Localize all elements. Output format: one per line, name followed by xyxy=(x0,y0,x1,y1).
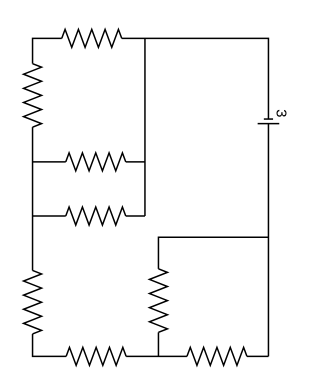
resistor R5 xyxy=(24,270,42,334)
wire left middle segment xyxy=(32,127,34,270)
wire top-left lead xyxy=(33,38,62,63)
resistor R6 xyxy=(149,269,167,333)
battery V1 short plate xyxy=(264,118,273,120)
wire top-right segment xyxy=(122,38,269,119)
wire middle vertical xyxy=(144,38,146,216)
wire lead R3 right xyxy=(126,161,145,163)
resistor R3 xyxy=(66,153,126,171)
svg-text:3: 3 xyxy=(272,109,289,117)
wire bottom-right lead xyxy=(247,355,269,357)
wire lead R4 left xyxy=(33,215,66,217)
wire lead R4 right xyxy=(126,215,145,217)
wire left bottom lead xyxy=(33,334,67,356)
battery V1 long plate xyxy=(258,123,280,125)
wire bottom middle segment xyxy=(126,355,187,357)
wire right lower segment xyxy=(267,124,269,357)
resistor R4 xyxy=(66,207,126,225)
resistor R1 xyxy=(62,29,122,47)
wire lead R3 left xyxy=(33,161,66,163)
wire branch horizontal xyxy=(158,237,268,269)
resistor R8 xyxy=(187,347,247,365)
resistor R7 xyxy=(66,347,126,365)
wire mid bottom lead xyxy=(157,332,159,356)
resistor R2 xyxy=(24,64,42,128)
